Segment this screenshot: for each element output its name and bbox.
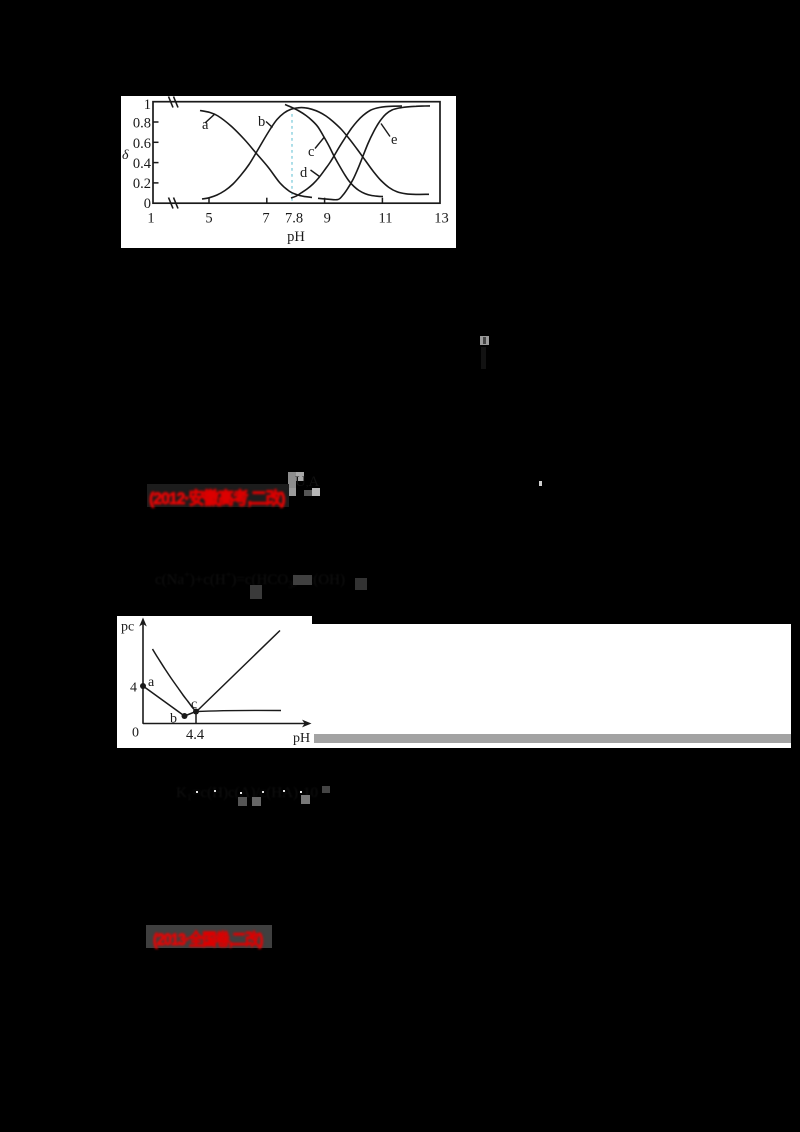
- label a pointer: [205, 114, 215, 123]
- red source annotation 1: [147, 484, 289, 507]
- svg-text:δ: δ: [122, 148, 129, 163]
- tiny light dash: [539, 481, 542, 486]
- label e pointer: [381, 124, 390, 137]
- faint mg/L fragment with gray highlight blocks: [288, 472, 296, 488]
- svg-text:b: b: [170, 712, 177, 727]
- svg-text:5: 5: [205, 211, 212, 227]
- gray underline strip: [314, 734, 791, 743]
- label b pointer: [266, 122, 273, 128]
- svg-text:e: e: [391, 132, 397, 148]
- point a: [140, 683, 146, 689]
- point b: [182, 713, 188, 719]
- label d pointer: [311, 170, 320, 177]
- svg-text:a: a: [148, 675, 155, 690]
- red source annotation 2 on gray box: [146, 925, 272, 948]
- segment a-b-c: [143, 686, 196, 716]
- x axis: [143, 723, 305, 725]
- flat line right of c: [196, 710, 281, 711]
- chart 2: pc vs pH diagram (white panel, top-left step): [117, 616, 312, 749]
- svg-text:a: a: [202, 117, 209, 133]
- svg-text:0.2: 0.2: [133, 176, 151, 192]
- svg-text:0: 0: [132, 726, 139, 741]
- chart 1: species distribution diagram (white panel): [121, 96, 456, 248]
- svg-text:13: 13: [434, 211, 449, 227]
- svg-text:0.8: 0.8: [133, 116, 151, 132]
- svg-text:1: 1: [147, 211, 154, 227]
- point c: [193, 709, 199, 715]
- label c pointer: [315, 138, 324, 149]
- faint equation 2 with speckles: [176, 785, 336, 809]
- tick at 4.4: [195, 712, 197, 724]
- curve b: [202, 108, 429, 199]
- curve d: [291, 106, 402, 198]
- curve e: [318, 106, 430, 200]
- axis ticks: [153, 122, 382, 203]
- svg-text:11: 11: [379, 211, 393, 227]
- svg-text:7: 7: [262, 211, 269, 227]
- curve a: [200, 111, 312, 198]
- svg-text:pH: pH: [287, 229, 305, 245]
- svg-text:9: 9: [324, 211, 331, 227]
- faint gray glyph block: [480, 336, 489, 345]
- rising straight line: [197, 631, 280, 712]
- svg-text:c: c: [191, 697, 197, 712]
- svg-text:0.4: 0.4: [133, 156, 152, 172]
- svg-text:1: 1: [144, 97, 151, 113]
- svg-text:c: c: [308, 144, 314, 160]
- svg-text:4: 4: [130, 681, 137, 696]
- steep descending curve: [153, 649, 198, 711]
- faint equation 1: [155, 570, 385, 596]
- svg-text:b: b: [258, 114, 265, 130]
- plot frame: [153, 102, 440, 204]
- curve c: [285, 105, 383, 197]
- dashed guide line at pH 7.8: [291, 114, 293, 203]
- axis break top: [169, 97, 179, 108]
- svg-text:4.4: 4.4: [186, 727, 205, 743]
- svg-text:7.8: 7.8: [285, 211, 303, 227]
- svg-text:0.6: 0.6: [133, 136, 151, 152]
- y axis: [142, 623, 144, 724]
- svg-text:pH: pH: [293, 731, 310, 746]
- axis break bottom: [169, 198, 179, 209]
- svg-text:pc: pc: [121, 620, 134, 635]
- svg-text:d: d: [300, 165, 308, 181]
